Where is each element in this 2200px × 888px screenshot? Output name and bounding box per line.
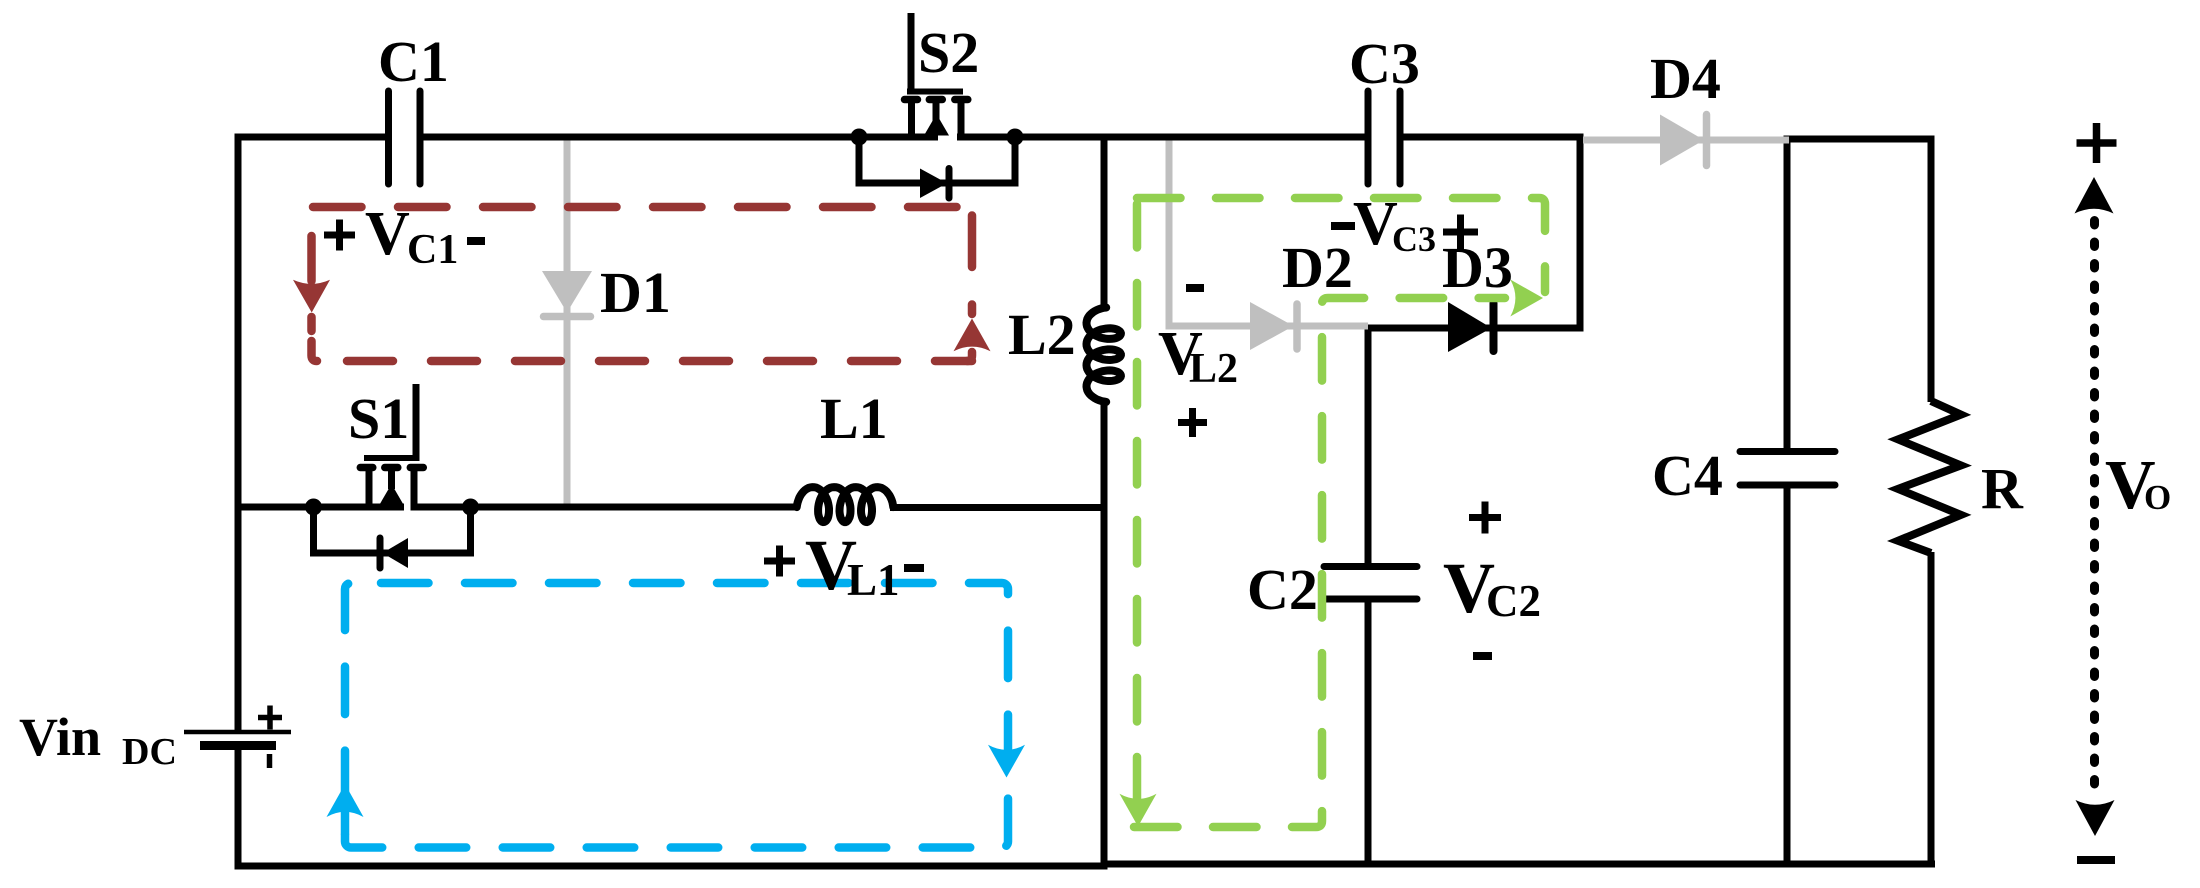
svg-text:C3: C3 (1349, 31, 1420, 96)
transistor S2 body-diode loop (859, 137, 1015, 183)
wire: bottom rail left (235, 863, 1108, 870)
loop blue arrow up (left side near bottom) (327, 784, 364, 817)
svg-text:C4: C4 (1652, 443, 1723, 508)
wire: L2 branch vertical below coil (1101, 399, 1108, 870)
svg-text:L2: L2 (1008, 302, 1076, 367)
wire: middle rail right of L1 (890, 504, 1107, 511)
diode D1 bar (544, 313, 591, 321)
label VC1 plus (324, 220, 355, 251)
svg-text:D3: D3 (1442, 235, 1513, 300)
resistor R zigzag (1898, 401, 1961, 553)
loop red dashed bottom edge (330, 357, 972, 366)
wire: D2 branch gray (vertical + horizontal to C2 node) (1169, 141, 1368, 327)
inductor L2 coil (1087, 308, 1121, 402)
diode D4 bar (1703, 115, 1711, 166)
loop green dashed: left vertical (1133, 204, 1142, 800)
loop green dashed: top edge and right drop (1137, 198, 1545, 292)
wire: top rail C3 to right corner (1403, 134, 1584, 141)
transistor S2 gate lead (908, 13, 915, 92)
label VL1 minus (904, 564, 924, 572)
label VC2 minus (1473, 652, 1492, 660)
transistor S2 gate bar (907, 89, 963, 95)
wire: C2 branch upper (1365, 325, 1372, 568)
capacitor C4 (1740, 452, 1835, 486)
node dot S1 left (305, 499, 322, 516)
battery plus sign (258, 706, 282, 730)
svg-text:L1: L1 (820, 386, 888, 451)
wire: top rail S2 to C3 (957, 134, 1365, 141)
wire: D4 gray rail (1583, 137, 1789, 144)
node dot S2 left (851, 129, 868, 146)
Vo plus sign (top right) (2077, 123, 2117, 163)
Vo minus sign (bottom right) (2077, 856, 2115, 864)
svg-text:Vin: Vin (19, 707, 101, 767)
label VL2 plus (1178, 408, 1207, 437)
svg-text:C2: C2 (1247, 557, 1318, 622)
Vo dashed measure line (2090, 221, 2099, 801)
svg-text:S2: S2 (918, 20, 979, 85)
label VC3 plus (1443, 215, 1478, 250)
wire: D1 branch gray vertical (564, 141, 571, 504)
diode S2 body (points right) (920, 169, 947, 199)
diode D2 bar (1293, 304, 1301, 349)
diode S2 body bar (946, 169, 953, 199)
svg-text:D1: D1 (600, 260, 671, 325)
svg-text:S1: S1 (348, 386, 409, 451)
Vo arrow down (bottom) (2076, 800, 2115, 836)
label VC1 minus (467, 237, 485, 245)
loop red dashed left edge (312, 236, 318, 361)
loop green dashed: bottom + inner vertical + inner horizontal (1134, 298, 1505, 827)
transistor S1 gate bar (364, 455, 420, 461)
svg-text:C3: C3 (1392, 219, 1436, 259)
transistor S2 arrow (924, 114, 949, 136)
battery Vin positive plate (184, 730, 291, 735)
battery minus tick (267, 754, 273, 768)
svg-text:D4: D4 (1650, 46, 1721, 111)
label VL1 plus (764, 546, 795, 577)
svg-text:L2: L2 (1189, 346, 1238, 392)
capacitor C1 (389, 91, 421, 184)
transistor S1 channel stubs (360, 464, 423, 472)
wire: R branch upper (1928, 136, 1935, 403)
svg-text:O: O (2144, 478, 2171, 517)
capacitor C3 (1368, 91, 1400, 184)
wire: bottom rail right (1101, 861, 1935, 868)
transistor S2 drain/source verticals (912, 100, 962, 137)
svg-text:C1: C1 (407, 227, 458, 273)
capacitor C2 (1324, 567, 1417, 600)
wire: middle rail S1 to L1 (411, 504, 800, 511)
svg-text:V: V (365, 200, 410, 268)
diode S1 body bar (377, 538, 384, 568)
Vo arrow up (top) (2075, 177, 2114, 214)
wire: top right rail D4 to R (1785, 136, 1935, 143)
svg-text:DC: DC (122, 731, 177, 773)
svg-text:L1: L1 (847, 555, 900, 605)
node dot S2 right (1007, 129, 1024, 146)
transistor S1 body-diode loop (314, 507, 471, 553)
wire: C4 branch lower (1784, 484, 1791, 868)
wire: R branch lower (1928, 552, 1935, 868)
wire: left vertical lower (battery to bottom rail) (235, 746, 242, 870)
transistor S1 gate lead (413, 384, 420, 458)
transistor S1 drain/source verticals (369, 468, 414, 507)
transistor S2 channel stubs (905, 96, 968, 104)
wire: C4 branch upper (1784, 136, 1791, 453)
svg-text:C1: C1 (378, 29, 449, 94)
label VC3 minus (1331, 222, 1355, 230)
wire: left vertical upper (Vin to top rail) (235, 134, 242, 731)
loop blue dashed rectangle (345, 583, 1008, 848)
loop red arrow down (left side) (293, 280, 330, 313)
diode D2 gray (points right) (1250, 302, 1294, 350)
diode D4 gray (points right) (1660, 115, 1704, 166)
diode D3 black (points right) (1448, 302, 1492, 352)
wire: blue tail dash below arrow (341, 812, 350, 834)
loop blue arrow down (right side) (988, 745, 1025, 778)
wire: top rail segment from left corner to C1 (235, 134, 387, 141)
loop green arrow right (inner end) (1510, 280, 1543, 317)
svg-text:R: R (1981, 456, 2024, 521)
loop red dashed top edge (313, 203, 972, 212)
loop red dashed right edge (967, 216, 972, 362)
transistor S1 arrow (379, 484, 404, 506)
wire: L2 branch vertical above coil (1101, 134, 1108, 307)
wire: top rail C1 to S2 (423, 134, 938, 141)
wire: C2 branch lower (1365, 598, 1372, 868)
label VL2 minus (1186, 284, 1204, 292)
wire: D3 rail horizontal (1368, 325, 1584, 332)
wire: middle rail left of S1 channel (238, 504, 404, 511)
loop red arrow up (right side) (954, 319, 991, 352)
node dot S1 right (462, 499, 479, 516)
diode D1 gray (points down) (542, 271, 592, 313)
wire: vertical from top rail down to D3 rail (1577, 134, 1584, 332)
battery Vin negative plate (200, 741, 276, 750)
inductor L1 coil (797, 487, 894, 522)
svg-text:D2: D2 (1282, 235, 1353, 300)
loop green arrow down (left bottom) (1120, 794, 1157, 827)
diode S1 body (points left) (383, 538, 409, 568)
label VC2 plus (1469, 502, 1501, 534)
svg-text:C2: C2 (1486, 576, 1541, 626)
diode D3 bar (1490, 303, 1498, 351)
